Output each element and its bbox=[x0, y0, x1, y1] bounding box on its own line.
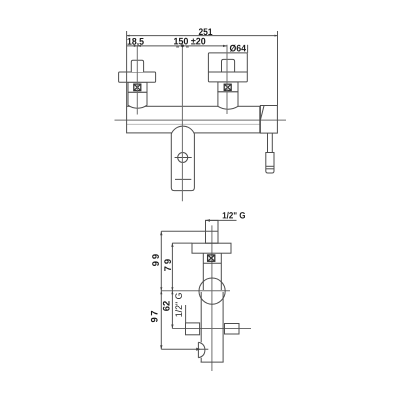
shower hose tube bbox=[267, 133, 269, 152]
side X-box bbox=[208, 255, 215, 261]
spout ellipse bbox=[198, 342, 205, 357]
center spout bbox=[171, 126, 194, 191]
leader arrow bbox=[206, 219, 211, 222]
spout centerline bbox=[181, 46, 183, 202]
dim center dot bbox=[181, 44, 184, 47]
right extension line bbox=[277, 31, 279, 106]
right handle divider bbox=[208, 71, 247, 73]
body inner faint line bbox=[127, 123, 260, 125]
text 79 bbox=[164, 259, 171, 271]
wall plane line bbox=[161, 230, 218, 232]
O64 extension bbox=[247, 45, 249, 53]
text 97 bbox=[151, 311, 158, 322]
left handle bar bbox=[119, 72, 156, 82]
leader to outlet bbox=[185, 305, 187, 323]
text 1/2 G rotated bbox=[175, 293, 182, 316]
faucet body bbox=[127, 106, 260, 133]
dim text O64 bbox=[230, 45, 246, 52]
right handle body bbox=[208, 53, 247, 82]
body horizontal centerline bbox=[115, 119, 287, 121]
left handle stem bbox=[131, 60, 143, 72]
diverter cross line bbox=[175, 157, 192, 159]
right end block bbox=[260, 106, 277, 134]
left outlet bbox=[186, 323, 200, 335]
side centerline vertical bbox=[211, 225, 213, 371]
right handle lever bbox=[222, 59, 235, 72]
text 62 bbox=[163, 301, 170, 311]
tolerance tick left bbox=[176, 46, 179, 48]
aerator dash bbox=[175, 178, 191, 180]
left extension line bbox=[126, 31, 128, 106]
left handle column bbox=[128, 82, 147, 92]
shower hose nipple bbox=[266, 153, 274, 174]
dim line 79/62 bbox=[171, 243, 173, 329]
circle axis line bbox=[161, 290, 230, 292]
top leader line bbox=[206, 219, 237, 221]
left handle X-box bbox=[134, 84, 141, 91]
right handle X-box bbox=[224, 84, 231, 90]
valve column upper bbox=[202, 253, 204, 290]
wall flange bbox=[192, 243, 231, 253]
column bottom bbox=[201, 361, 224, 363]
valve circle bbox=[199, 278, 225, 304]
nipple ring lines bbox=[266, 165, 274, 167]
block chamfer line bbox=[260, 106, 264, 121]
text 1/2 G top bbox=[223, 212, 245, 219]
valve column lower bbox=[200, 292, 202, 342]
flange top extension bbox=[172, 242, 192, 244]
outlet axis line bbox=[172, 328, 251, 330]
diverter circle bbox=[178, 153, 188, 163]
left handle centerline bbox=[136, 46, 138, 115]
dim text 18,5 bbox=[128, 38, 144, 46]
spout leader line bbox=[161, 348, 208, 350]
text 99 bbox=[152, 254, 159, 266]
right handle column bbox=[218, 82, 238, 92]
spout leader arrow bbox=[196, 348, 201, 351]
dim text 150 +-20 bbox=[174, 38, 205, 45]
dim arrows top bbox=[127, 35, 278, 48]
left handle escutcheon bbox=[128, 92, 147, 108]
dim 18,5 / 150 line bbox=[127, 45, 227, 47]
wall stub bbox=[206, 220, 219, 243]
column divider bbox=[203, 262, 221, 264]
dim text 251 bbox=[199, 28, 212, 35]
dim line 99/97 bbox=[160, 231, 162, 349]
right handle centerline bbox=[226, 45, 228, 114]
dim 251 line bbox=[127, 35, 278, 37]
tolerance tick right bbox=[186, 46, 189, 48]
right outlet bbox=[225, 324, 240, 335]
dim arrows side bbox=[160, 231, 173, 349]
right handle escutcheon bbox=[218, 92, 238, 109]
